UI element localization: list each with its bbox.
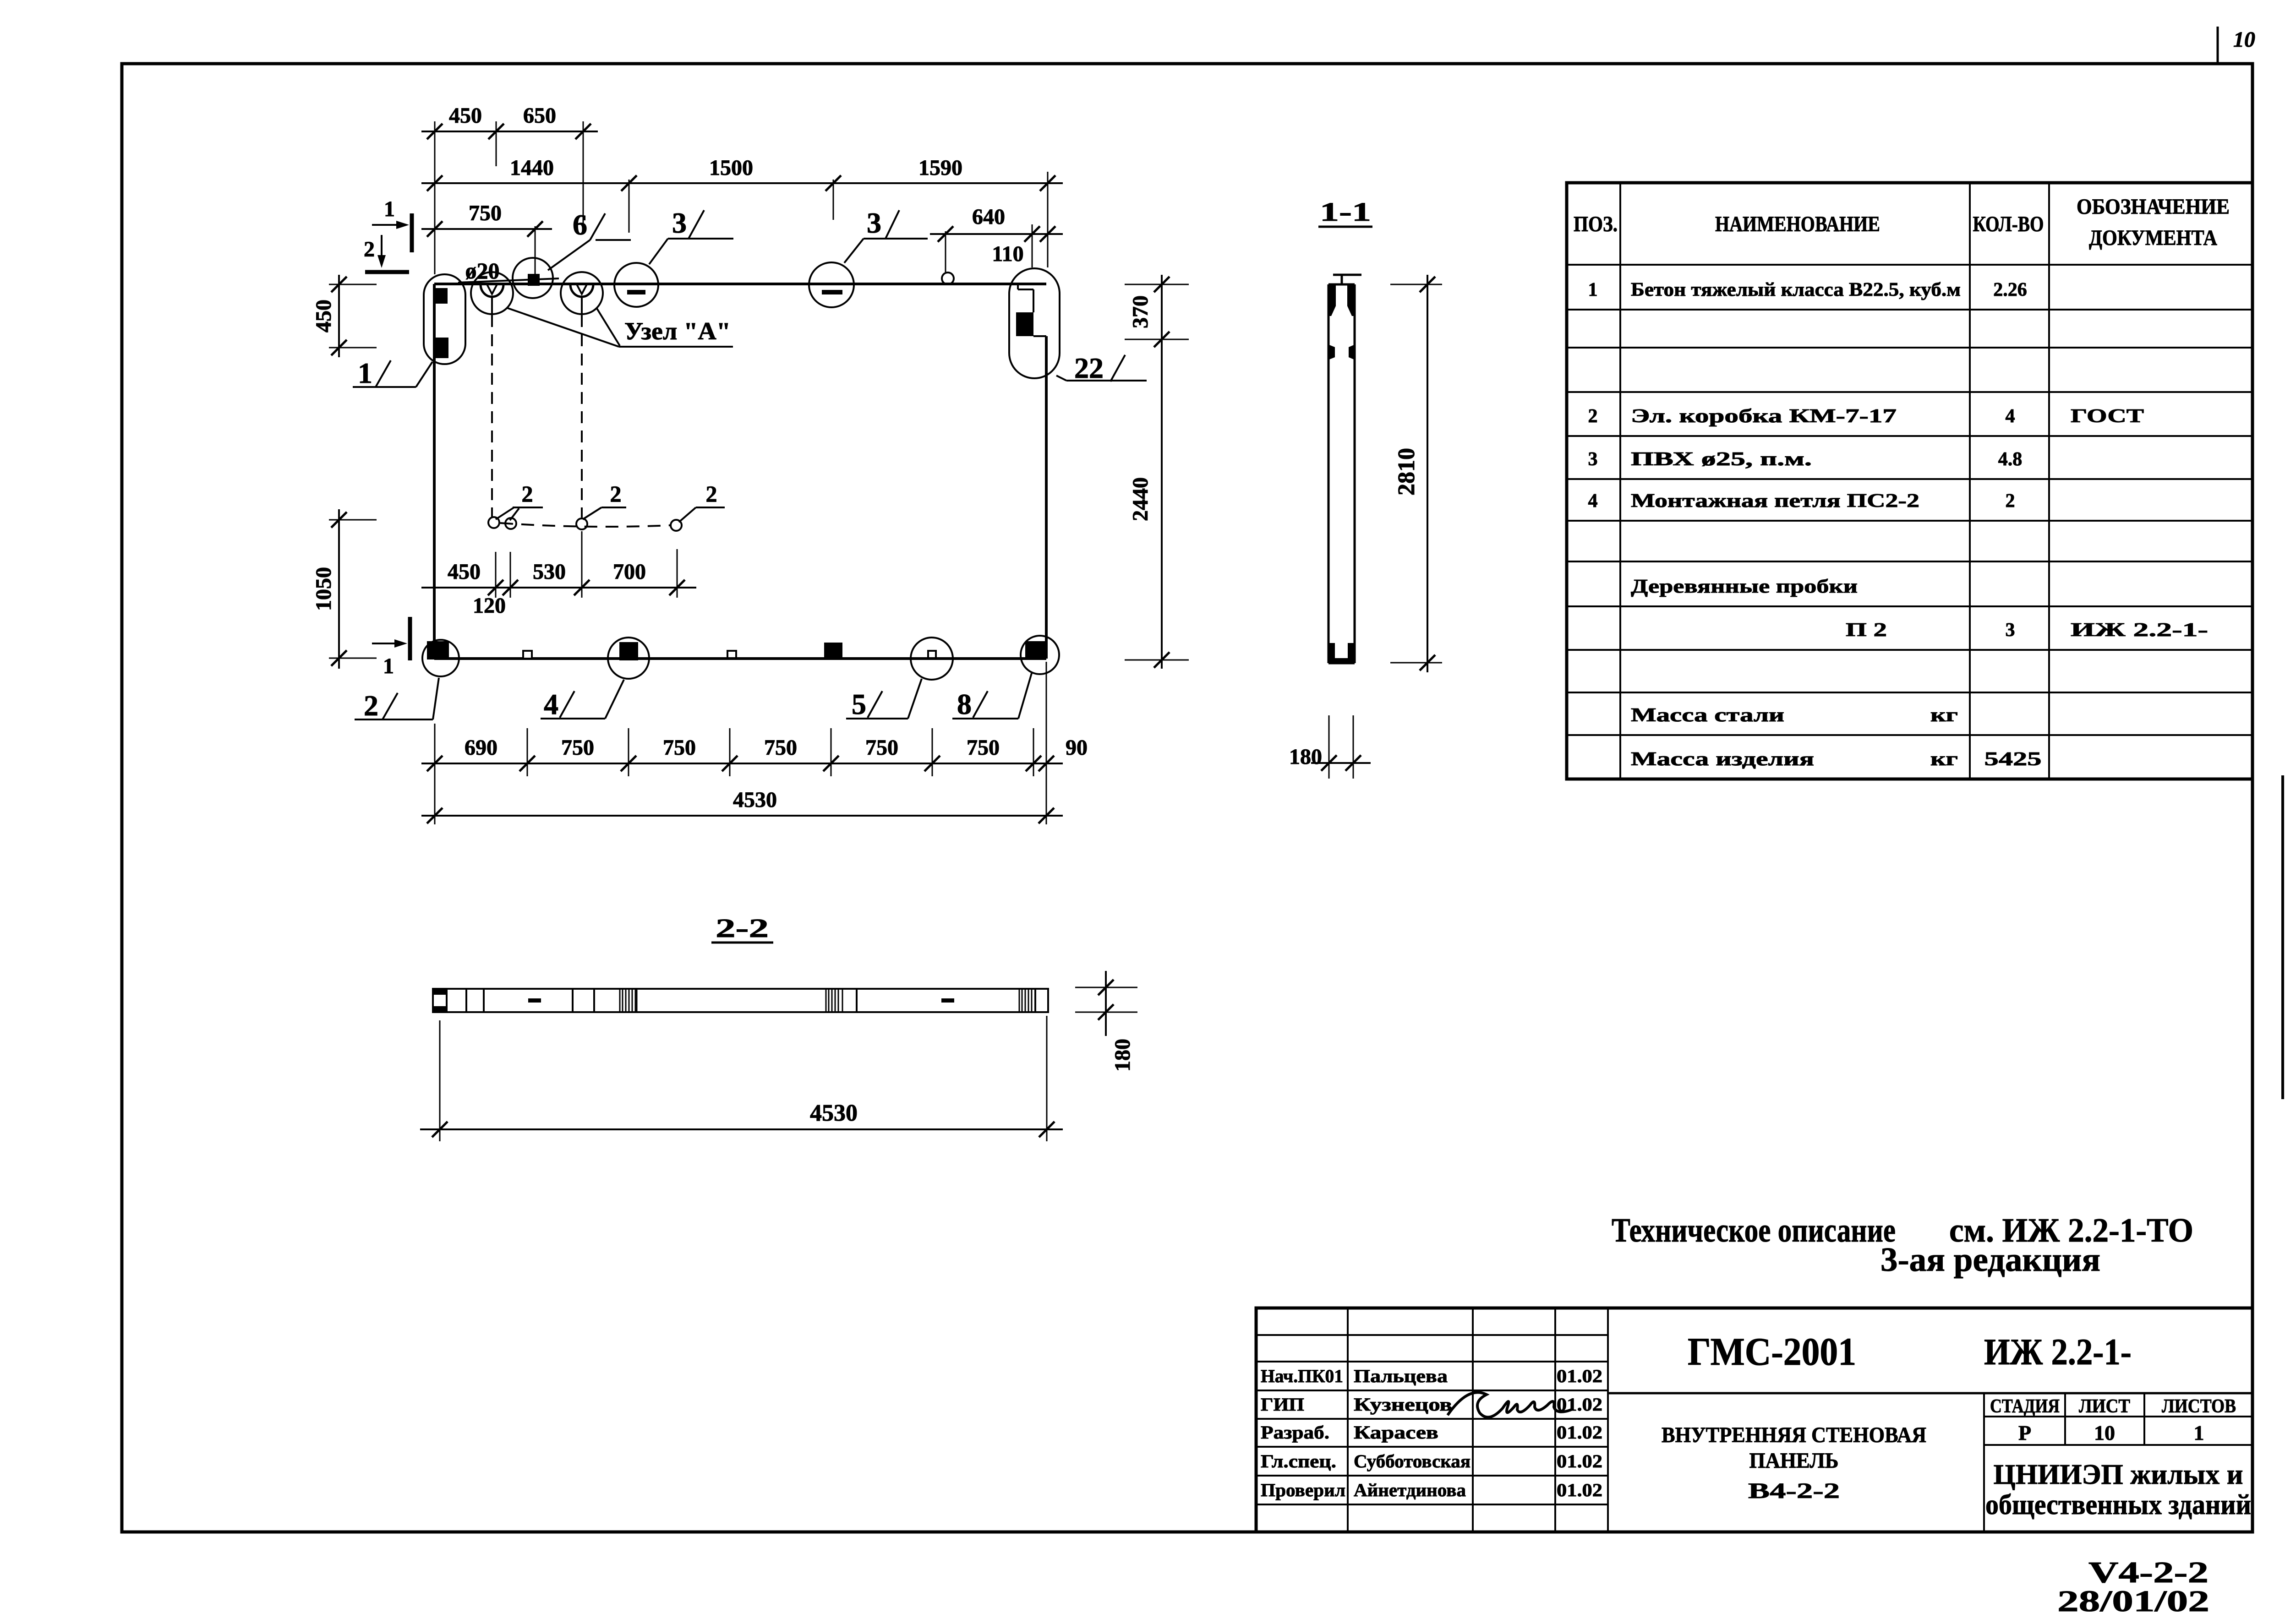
svg-text:общественных зданий: общественных зданий xyxy=(1985,1489,2251,1520)
svg-text:1590: 1590 xyxy=(918,156,962,180)
svg-text:2: 2 xyxy=(610,481,622,507)
svg-text:2: 2 xyxy=(1588,406,1598,427)
svg-text:01.02: 01.02 xyxy=(1557,1480,1602,1500)
svg-text:Кузнецов: Кузнецов xyxy=(1354,1394,1452,1415)
svg-text:750: 750 xyxy=(663,736,696,760)
svg-text:1-1: 1-1 xyxy=(1320,197,1371,227)
svg-text:690: 690 xyxy=(465,736,497,760)
svg-text:Карасев: Карасев xyxy=(1354,1422,1438,1443)
svg-text:ПАНЕЛЬ: ПАНЕЛЬ xyxy=(1749,1449,1839,1473)
svg-text:4530: 4530 xyxy=(733,788,777,812)
svg-text:ЛИСТ: ЛИСТ xyxy=(2079,1396,2130,1417)
svg-text:450: 450 xyxy=(312,300,336,332)
svg-text:1: 1 xyxy=(1588,279,1598,300)
svg-text:750: 750 xyxy=(469,201,502,225)
svg-text:2: 2 xyxy=(364,237,375,262)
svg-text:Техническое описание: Техническое описание xyxy=(1612,1212,1896,1249)
svg-text:650: 650 xyxy=(523,104,556,128)
svg-text:Масса изделия: Масса изделия xyxy=(1631,749,1814,770)
svg-text:4.8: 4.8 xyxy=(1998,449,2023,470)
svg-text:750: 750 xyxy=(561,736,594,760)
svg-text:1500: 1500 xyxy=(709,156,753,180)
svg-text:ИЖ 2.2-1-: ИЖ 2.2-1- xyxy=(2071,620,2208,641)
svg-text:Эл. коробка КМ-7-17: Эл. коробка КМ-7-17 xyxy=(1631,406,1897,427)
svg-text:01.02: 01.02 xyxy=(1557,1451,1602,1471)
svg-text:2.26: 2.26 xyxy=(1993,279,2027,300)
svg-text:СТАДИЯ: СТАДИЯ xyxy=(1990,1396,2060,1417)
svg-text:2810: 2810 xyxy=(1394,448,1420,496)
svg-text:Проверил: Проверил xyxy=(1261,1480,1345,1500)
svg-text:ИЖ 2.2-1-: ИЖ 2.2-1- xyxy=(1984,1331,2132,1373)
svg-text:5: 5 xyxy=(852,688,866,720)
svg-text:ЛИСТОВ: ЛИСТОВ xyxy=(2162,1396,2236,1417)
svg-text:22: 22 xyxy=(1074,352,1104,384)
svg-text:кг: кг xyxy=(1930,749,1958,770)
svg-text:3: 3 xyxy=(672,207,687,239)
svg-text:П 2: П 2 xyxy=(1846,620,1887,641)
svg-text:Гл.спец.: Гл.спец. xyxy=(1261,1451,1336,1471)
svg-text:Монтажная петля ПС2-2: Монтажная петля ПС2-2 xyxy=(1631,490,1919,512)
svg-text:8: 8 xyxy=(957,688,972,720)
svg-text:530: 530 xyxy=(533,560,566,584)
svg-text:Нач.ПК01: Нач.ПК01 xyxy=(1261,1366,1343,1386)
svg-text:1: 1 xyxy=(383,654,394,678)
svg-text:Узел "А": Узел "А" xyxy=(624,317,731,345)
svg-text:3-ая редакция: 3-ая редакция xyxy=(1880,1241,2100,1279)
svg-text:640: 640 xyxy=(972,205,1005,229)
svg-text:3: 3 xyxy=(2006,620,2015,641)
svg-text:3: 3 xyxy=(1588,449,1598,470)
svg-text:ø20: ø20 xyxy=(465,258,500,283)
svg-text:4: 4 xyxy=(544,688,558,720)
svg-text:4: 4 xyxy=(1588,490,1598,512)
svg-text:1: 1 xyxy=(358,357,372,389)
svg-text:6: 6 xyxy=(573,208,587,241)
svg-text:120: 120 xyxy=(473,594,506,618)
svg-text:2-2: 2-2 xyxy=(716,913,769,943)
svg-text:450: 450 xyxy=(449,104,482,128)
svg-text:ПОЗ.: ПОЗ. xyxy=(1574,212,1618,236)
svg-text:ВНУТРЕННЯЯ СТЕНОВАЯ: ВНУТРЕННЯЯ СТЕНОВАЯ xyxy=(1662,1423,1926,1447)
svg-text:Субботовская: Субботовская xyxy=(1354,1451,1470,1471)
svg-text:750: 750 xyxy=(865,736,898,760)
svg-text:ГМС-2001: ГМС-2001 xyxy=(1688,1330,1856,1373)
svg-text:2: 2 xyxy=(364,689,378,722)
svg-text:2440: 2440 xyxy=(1128,477,1153,521)
svg-text:180: 180 xyxy=(1110,1039,1135,1072)
svg-text:10: 10 xyxy=(2233,27,2255,52)
svg-text:ГОСТ: ГОСТ xyxy=(2071,406,2144,427)
svg-text:ПВХ ø25, п.м.: ПВХ ø25, п.м. xyxy=(1631,449,1812,470)
svg-text:3: 3 xyxy=(867,207,881,239)
svg-text:кг: кг xyxy=(1930,705,1958,726)
svg-text:5425: 5425 xyxy=(1984,749,2042,770)
svg-text:10: 10 xyxy=(2094,1421,2115,1444)
svg-text:90: 90 xyxy=(1066,736,1088,760)
svg-text:1: 1 xyxy=(384,197,395,221)
svg-text:370: 370 xyxy=(1128,295,1153,328)
svg-text:2: 2 xyxy=(2006,490,2015,512)
svg-text:Айнетдинова: Айнетдинова xyxy=(1354,1480,1466,1500)
svg-text:4: 4 xyxy=(2006,406,2015,427)
svg-text:Разраб.: Разраб. xyxy=(1261,1422,1329,1443)
svg-text:4530: 4530 xyxy=(810,1100,858,1126)
svg-text:750: 750 xyxy=(967,736,1000,760)
svg-text:ДОКУМЕНТА: ДОКУМЕНТА xyxy=(2089,226,2217,250)
svg-text:ЦНИИЭП жилых и: ЦНИИЭП жилых и xyxy=(1994,1459,2243,1490)
svg-text:НАИМЕНОВАНИЕ: НАИМЕНОВАНИЕ xyxy=(1715,212,1880,236)
svg-text:180: 180 xyxy=(1289,745,1322,769)
svg-text:ОБОЗНАЧЕНИЕ: ОБОЗНАЧЕНИЕ xyxy=(2077,195,2230,219)
svg-text:450: 450 xyxy=(448,560,481,584)
svg-text:Бетон тяжелый класса В22.5, ку: Бетон тяжелый класса В22.5, куб.м xyxy=(1631,279,1961,300)
svg-text:ГИП: ГИП xyxy=(1261,1394,1304,1415)
svg-text:2: 2 xyxy=(522,481,533,507)
svg-text:Пальцева: Пальцева xyxy=(1354,1366,1448,1386)
svg-text:1440: 1440 xyxy=(510,156,554,180)
svg-text:Деревянные пробки: Деревянные пробки xyxy=(1631,576,1858,597)
svg-text:Масса стали: Масса стали xyxy=(1631,705,1784,726)
svg-text:В4-2-2: В4-2-2 xyxy=(1748,1479,1840,1503)
svg-text:28/01/02: 28/01/02 xyxy=(2057,1585,2209,1618)
svg-text:01.02: 01.02 xyxy=(1557,1366,1602,1386)
svg-text:2: 2 xyxy=(706,481,717,507)
svg-text:01.02: 01.02 xyxy=(1557,1422,1602,1443)
svg-text:1: 1 xyxy=(2194,1421,2204,1444)
svg-text:700: 700 xyxy=(613,560,646,584)
svg-text:750: 750 xyxy=(764,736,797,760)
svg-text:Р: Р xyxy=(2018,1421,2031,1444)
svg-text:КОЛ-ВО: КОЛ-ВО xyxy=(1973,212,2044,236)
svg-text:110: 110 xyxy=(992,242,1023,266)
svg-text:1050: 1050 xyxy=(312,567,336,611)
